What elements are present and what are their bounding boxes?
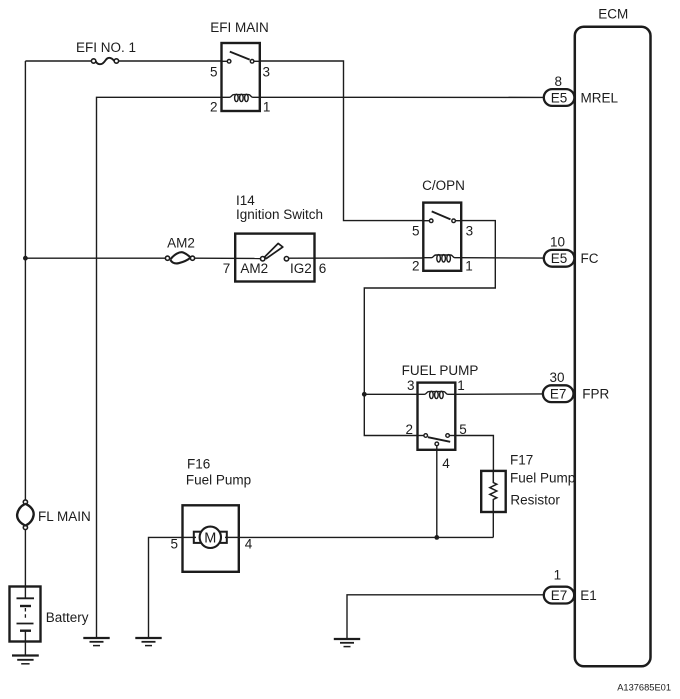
svg-text:4: 4 [442,456,450,471]
fuse AM2 [165,235,194,263]
svg-text:2: 2 [405,422,413,437]
svg-text:EFI MAIN: EFI MAIN [210,20,269,35]
relay EFI MAIN [210,20,270,115]
wire fuse to EFI MAIN relay [119,60,222,62]
wire resistor bottom to motor output wire [492,512,494,537]
svg-text:FPR: FPR [582,387,609,402]
svg-text:E7: E7 [550,387,567,402]
svg-text:1: 1 [465,258,473,273]
wire AM2 fuse to ignition switch [195,257,261,259]
svg-text:7: 7 [223,261,231,276]
wire top rail horizontal left [25,60,91,62]
wire C/OPN pin1 to E5 connector FC [461,257,544,259]
svg-text:A137685E01: A137685E01 [617,682,671,692]
svg-text:3: 3 [466,224,474,239]
relay FUEL PUMP [402,363,479,471]
svg-text:5: 5 [412,224,420,239]
svg-text:F17: F17 [510,453,533,468]
svg-text:Ignition Switch: Ignition Switch [236,207,323,222]
svg-text:IG2: IG2 [290,261,312,276]
node junction fuel pump coil feed [362,392,367,397]
svg-text:2: 2 [210,100,218,115]
wire FUEL PUMP pin4 down [436,446,438,538]
svg-text:FC: FC [581,251,599,266]
svg-text:Resistor: Resistor [510,493,560,508]
switch I14 Ignition Switch [223,193,327,282]
ECM box U1 [575,7,651,667]
svg-text:10: 10 [550,234,565,249]
svg-text:Battery: Battery [46,610,89,625]
fusible link FL MAIN [17,500,91,530]
svg-text:5: 5 [210,65,218,80]
svg-text:1: 1 [263,100,271,115]
wire MREL rail corner to EFI MAIN pin2 [97,97,222,638]
connector E7 pin30 FPR [543,370,610,402]
wire EFI MAIN pin3 to C/OPN pin5 [260,61,424,221]
svg-text:E5: E5 [551,251,568,266]
svg-text:Fuel Pump: Fuel Pump [510,471,575,486]
node junction AM2 branch [23,256,28,261]
wire FL MAIN to battery [24,530,26,598]
ground below MREL rail [83,638,109,646]
resistor F17 Fuel Pump Resistor [481,453,575,512]
node junction pin4 wire [434,535,439,540]
svg-text:3: 3 [262,65,270,80]
ground below battery [12,656,39,664]
wire junction to FUEL PUMP pin3 [364,393,417,395]
wire motor pin5 to ground rail [149,537,183,638]
svg-text:6: 6 [319,261,327,276]
wire C/OPN pin3 loop down to fuel pump relay [364,221,495,436]
svg-text:MREL: MREL [581,91,619,106]
svg-text:1: 1 [554,568,562,583]
svg-text:AM2: AM2 [240,261,268,276]
svg-text:C/OPN: C/OPN [422,178,465,193]
svg-text:E5: E5 [551,90,568,105]
ground below motor [135,638,161,646]
svg-text:3: 3 [407,378,415,393]
svg-text:I14: I14 [236,193,255,208]
svg-text:ECM: ECM [598,7,628,22]
main left rail from top to FL MAIN [24,61,26,500]
motor F16 Fuel Pump [171,457,253,572]
svg-text:E1: E1 [580,588,597,603]
svg-text:AM2: AM2 [167,235,195,250]
connector E5 pin10 FC [544,234,599,266]
svg-text:2: 2 [412,258,420,273]
svg-text:EFI NO. 1: EFI NO. 1 [76,40,136,55]
wire ignition IG2 to C/OPN pin2 [289,257,424,259]
wire junction to AM2 fuse [25,257,165,259]
svg-text:30: 30 [549,370,564,385]
connector E5 pin8 MREL [544,74,619,106]
svg-text:1: 1 [457,378,465,393]
ground below E1 [334,639,360,647]
wire EFI MAIN pin1 to E5 connector [260,96,544,98]
wire FUEL PUMP pin5 to resistor F17 [455,436,493,471]
svg-text:F16: F16 [187,457,210,472]
wire motor pin4 to resistor bottom [239,536,493,538]
svg-text:5: 5 [171,537,179,552]
wire FUEL PUMP pin1 to E7 connector FPR [455,393,543,395]
svg-text:M: M [204,530,216,546]
fuse EFI NO. 1 [76,40,136,64]
svg-text:FUEL PUMP: FUEL PUMP [402,363,479,378]
svg-text:4: 4 [245,537,253,552]
relay C/OPN [412,178,473,273]
svg-text:Fuel Pump: Fuel Pump [186,473,251,488]
svg-text:E7: E7 [551,588,568,603]
svg-text:FL MAIN: FL MAIN [38,509,91,524]
wire E1 to ground [347,595,544,639]
battery B1 [10,587,89,656]
connector E7 pin1 E1 [544,568,597,604]
svg-text:8: 8 [554,74,562,89]
